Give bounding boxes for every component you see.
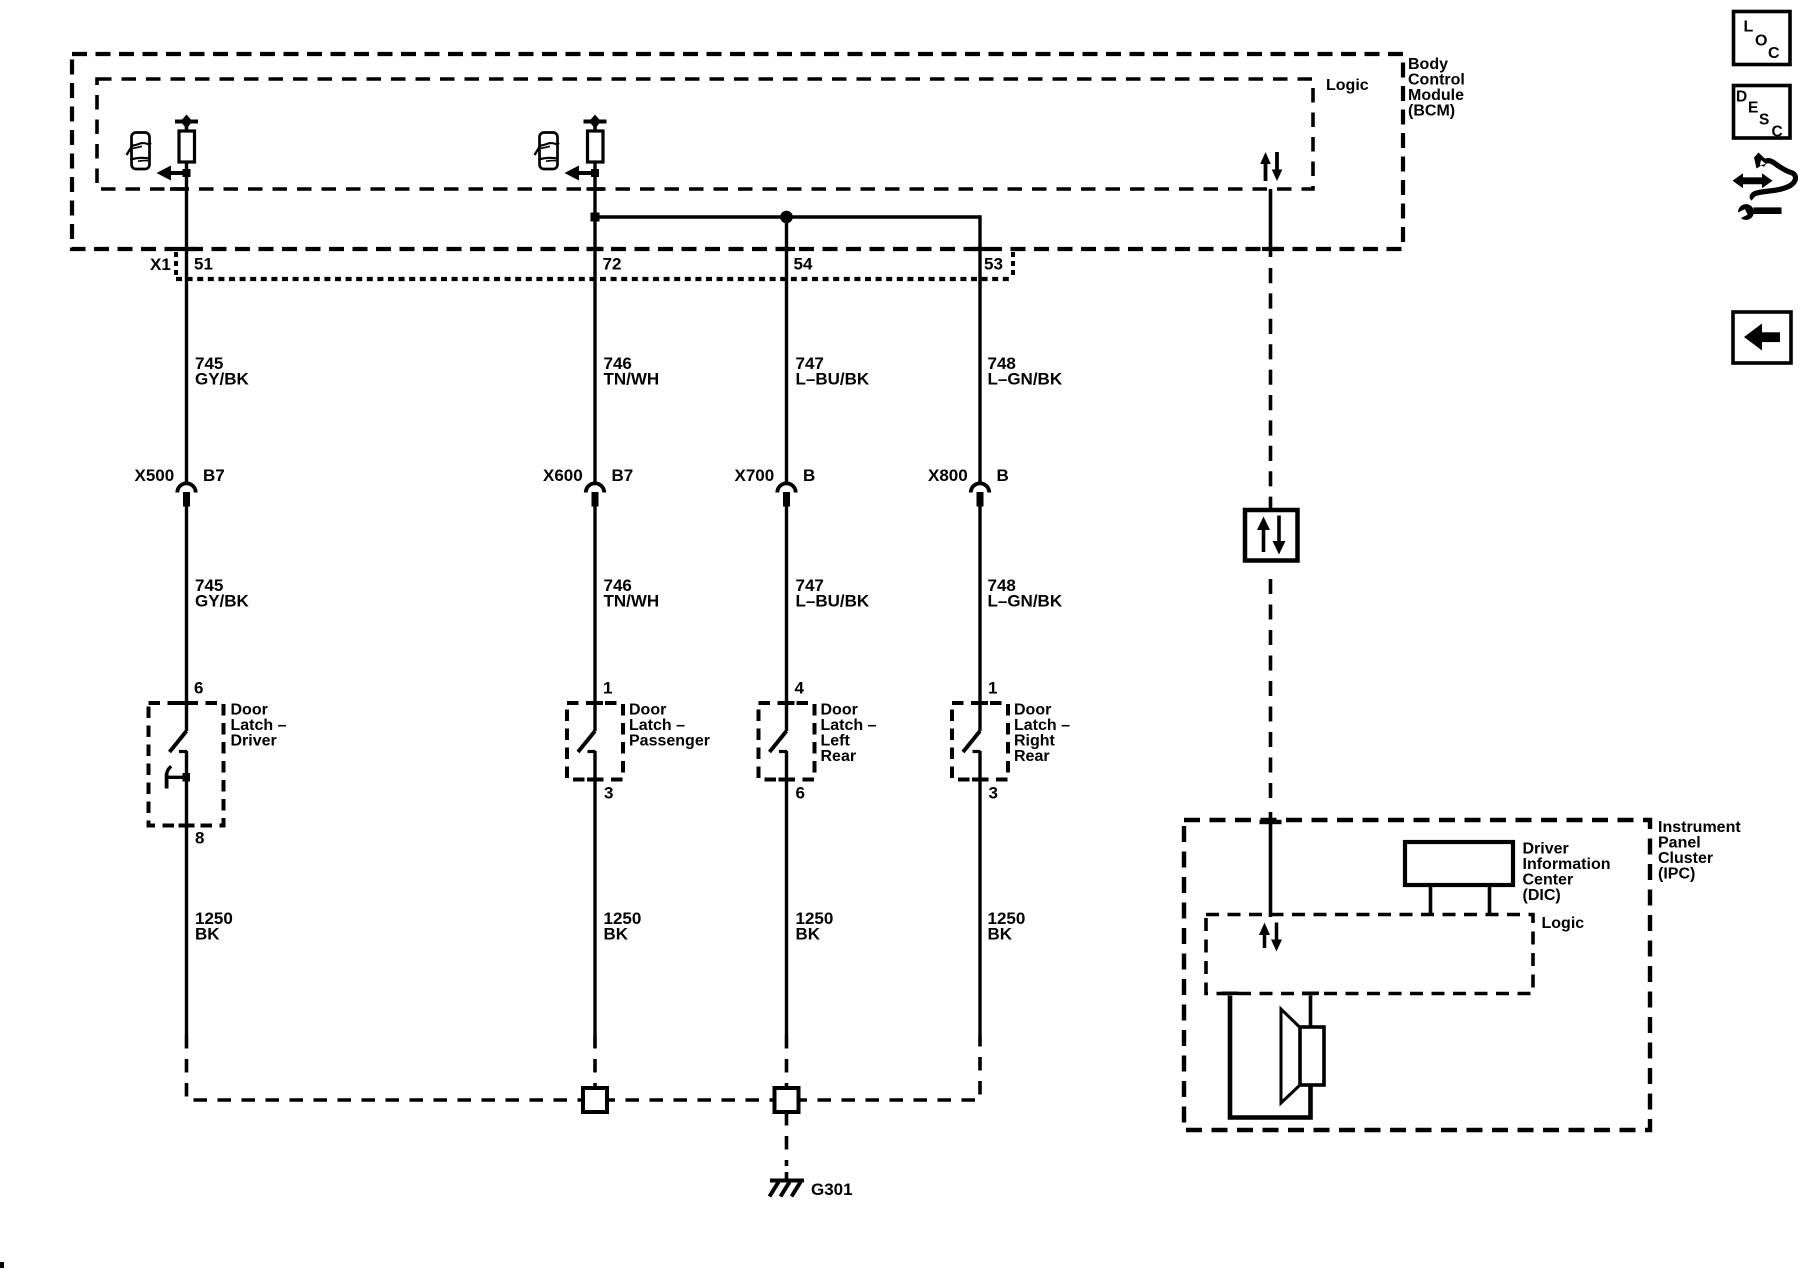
svg-text:Right: Right — [1014, 733, 1056, 750]
right rear latch label — [1014, 702, 1070, 766]
wire 1250 BK right rear solid — [978, 780, 981, 1036]
svg-text:Door: Door — [821, 702, 858, 719]
wire 746 upper segment — [593, 162, 596, 484]
pin 3 (right rear latch bottom) — [989, 784, 998, 803]
svg-text:72: 72 — [603, 255, 622, 274]
svg-text:Rear: Rear — [821, 748, 857, 765]
svg-text:54: 54 — [794, 255, 813, 274]
svg-text:Logic: Logic — [1326, 77, 1369, 94]
svg-text:6: 6 — [796, 784, 805, 803]
pin 6 (left rear latch bottom) — [796, 784, 805, 803]
wire 748 lower segment — [978, 507, 981, 732]
svg-text:8: 8 — [195, 829, 204, 848]
speaker wires — [1230, 996, 1311, 1118]
tick wire2 x logic box bottom — [587, 187, 604, 191]
svg-text:Left: Left — [821, 733, 851, 750]
tick speaker wire x IPC logic bottom — [1222, 992, 1239, 996]
serial data arrows in IPC logic — [1259, 923, 1282, 952]
pin 51 — [194, 255, 213, 274]
switch passenger — [578, 731, 596, 780]
back arrow icon box — [1733, 312, 1791, 363]
diagnostic icon (arrows + wrench) — [1733, 153, 1796, 221]
junction dot at wire3 branch — [780, 211, 793, 224]
arrow to car 1 — [157, 166, 191, 181]
svg-text:BK: BK — [988, 925, 1013, 944]
wire 747 label upper — [796, 354, 870, 389]
wire 745 label upper — [195, 354, 250, 389]
left rear latch label — [821, 702, 877, 766]
svg-text:GY/BK: GY/BK — [195, 592, 250, 611]
svg-text:BK: BK — [195, 925, 220, 944]
svg-text:1: 1 — [603, 679, 612, 698]
ground G301 — [770, 1181, 805, 1197]
wire 746 label mid — [604, 576, 660, 611]
X1 label — [150, 255, 171, 274]
serial data wire solid (below BCM logic) — [1269, 189, 1273, 257]
tick serial x BCM bottom — [1262, 247, 1279, 251]
battery feed symbol 1 (resistor with power tick) — [175, 115, 198, 163]
svg-text:X1: X1 — [150, 255, 171, 274]
pin 8 (driver latch bottom) — [195, 829, 204, 848]
svg-text:L–GN/BK: L–GN/BK — [988, 370, 1063, 389]
svg-text:S: S — [1759, 112, 1769, 129]
IPC outer dashed box — [1184, 820, 1650, 1130]
splice S1 — [583, 1088, 607, 1112]
tick wire3 x left rear box top — [779, 701, 795, 705]
dashed ground bus — [187, 1035, 981, 1100]
1250 BK label wire4 — [988, 909, 1026, 944]
tick wire1 x BCM bottom — [178, 247, 195, 251]
DIC module — [1405, 842, 1513, 916]
serial data arrows in BCM logic — [1260, 152, 1282, 181]
svg-text:Driver: Driver — [1523, 841, 1569, 858]
switch left rear — [770, 731, 788, 780]
serial data wire dashed lower — [1269, 579, 1273, 804]
svg-text:B7: B7 — [203, 466, 225, 485]
svg-text:1: 1 — [988, 679, 997, 698]
arrow to car 2 — [565, 166, 600, 181]
serial data wire dashed upper — [1269, 268, 1273, 510]
wire 747 upper segment — [785, 217, 788, 484]
svg-text:3: 3 — [604, 784, 613, 803]
wire 745 label mid — [195, 576, 250, 611]
svg-text:B: B — [997, 466, 1009, 485]
X1 connector band (dotted) — [176, 252, 1013, 279]
BCM Logic dashed box — [97, 79, 1313, 189]
svg-text:Door: Door — [629, 702, 666, 719]
serial data wire solid into IPC — [1269, 812, 1273, 917]
svg-text:53: 53 — [984, 255, 1003, 274]
svg-text:E: E — [1748, 100, 1758, 117]
wire 1250 BK driver solid — [185, 826, 188, 1036]
IPC logic dashed box — [1206, 915, 1533, 994]
splice S2 — [775, 1088, 799, 1112]
svg-text:Logic: Logic — [1542, 915, 1585, 932]
pin 72 — [603, 255, 622, 274]
door latch driver box — [149, 703, 224, 826]
svg-text:L: L — [1744, 19, 1754, 36]
passenger latch label — [629, 702, 710, 750]
tick wire4 x BCM bottom — [972, 247, 989, 251]
car icon 1 — [127, 133, 151, 170]
tick wire3 x left rear box bottom — [779, 778, 795, 782]
svg-text:4: 4 — [795, 679, 805, 698]
wire 747 label mid — [796, 576, 870, 611]
svg-text:Control: Control — [1408, 72, 1465, 89]
tick wire1 x driver box bottom — [179, 824, 195, 828]
connector X700 — [777, 483, 795, 506]
svg-text:C: C — [1772, 124, 1783, 141]
svg-text:Body: Body — [1408, 56, 1448, 73]
svg-text:3: 3 — [989, 784, 998, 803]
wire 1250 BK passenger solid — [593, 780, 596, 1036]
svg-text:B7: B7 — [612, 466, 634, 485]
svg-text:Module: Module — [1408, 87, 1464, 104]
dashed wire to ground — [785, 1112, 789, 1180]
svg-text:G301: G301 — [811, 1180, 853, 1199]
page mark bottom-left — [0, 1262, 4, 1268]
wire 748 upper segment — [978, 215, 981, 484]
switch right rear — [963, 731, 981, 780]
svg-text:Latch –: Latch – — [629, 717, 685, 734]
svg-text:TN/WH: TN/WH — [604, 370, 660, 389]
DIC label — [1523, 841, 1611, 905]
svg-text:X700: X700 — [735, 466, 775, 485]
svg-text:Panel: Panel — [1658, 835, 1701, 852]
connector X500 — [177, 483, 195, 506]
tick wire2 x passenger box top — [587, 701, 603, 705]
svg-text:Latch –: Latch – — [1014, 717, 1070, 734]
svg-text:TN/WH: TN/WH — [604, 592, 660, 611]
junction square at wire2 branch — [591, 213, 600, 222]
branch wire from wire2 to wires 3 and 4 — [595, 215, 980, 219]
svg-text:X500: X500 — [135, 466, 175, 485]
svg-text:BK: BK — [796, 925, 821, 944]
door latch passenger box — [567, 703, 623, 780]
wire 1250 BK left rear solid — [785, 780, 788, 1036]
G301 label — [811, 1180, 853, 1199]
BCM label — [1408, 56, 1465, 120]
wire 745 upper segment — [185, 162, 188, 484]
svg-text:Rear: Rear — [1014, 748, 1050, 765]
tick wire1 x logic box bottom — [170, 187, 187, 191]
tick wire3 x BCM bottom — [778, 247, 795, 251]
svg-text:BK: BK — [604, 925, 629, 944]
pin 3 (passenger latch bottom) — [604, 784, 613, 803]
pin 6 (driver latch top) — [194, 679, 203, 698]
svg-text:51: 51 — [194, 255, 213, 274]
1250 BK label wire1 — [195, 909, 233, 944]
wire 748 label upper — [988, 354, 1063, 389]
Logic label (BCM) — [1326, 77, 1369, 94]
tick wire4 x right rear box top — [972, 701, 988, 705]
BCM outer dashed box — [72, 54, 1403, 249]
svg-text:Door: Door — [1014, 702, 1051, 719]
Logic label (IPC) — [1542, 915, 1585, 932]
svg-text:L–GN/BK: L–GN/BK — [988, 592, 1063, 611]
wire 746 label upper — [604, 354, 660, 389]
switch driver — [170, 731, 188, 826]
wire 746 lower segment — [593, 507, 596, 732]
tick serial x IPC top — [1260, 820, 1282, 824]
svg-text:L–BU/BK: L–BU/BK — [796, 592, 870, 611]
svg-text:B: B — [803, 466, 815, 485]
pin 53 — [984, 255, 1003, 274]
wire 748 label mid — [988, 576, 1063, 611]
1250 BK label wire3 — [796, 909, 834, 944]
door latch right rear box — [952, 703, 1008, 780]
pin 4 (left rear latch top) — [795, 679, 805, 698]
serial data gateway box — [1245, 510, 1298, 561]
IPC label — [1658, 819, 1741, 883]
svg-text:D: D — [1736, 89, 1747, 106]
svg-text:Center: Center — [1523, 872, 1574, 889]
svg-text:O: O — [1755, 33, 1767, 50]
wire 745 lower segment — [185, 507, 188, 732]
driver latch label — [231, 702, 287, 750]
svg-text:Latch –: Latch – — [821, 717, 877, 734]
svg-text:(DIC): (DIC) — [1523, 887, 1561, 904]
svg-text:L–BU/BK: L–BU/BK — [796, 370, 870, 389]
svg-text:(IPC): (IPC) — [1658, 866, 1695, 883]
latch actuator (driver) — [165, 766, 190, 788]
svg-text:X800: X800 — [928, 466, 968, 485]
tick wire2 x BCM bottom — [587, 247, 604, 251]
svg-text:(BCM): (BCM) — [1408, 103, 1455, 120]
battery feed symbol 2 — [584, 115, 607, 163]
svg-text:Instrument: Instrument — [1658, 819, 1741, 836]
tick wire2 x passenger box bottom — [587, 778, 603, 782]
tick wire1 x driver box top — [179, 701, 195, 705]
pin 1 (right rear latch top) — [988, 679, 997, 698]
pin 1 (passenger latch top) — [603, 679, 612, 698]
svg-text:6: 6 — [194, 679, 203, 698]
tick wire4 x right rear box bottom — [972, 778, 988, 782]
svg-text:C: C — [1768, 45, 1780, 62]
svg-text:Information: Information — [1523, 856, 1611, 873]
svg-text:X600: X600 — [543, 466, 583, 485]
car icon 2 — [535, 133, 559, 170]
speaker — [1281, 1009, 1324, 1103]
svg-text:Door: Door — [231, 702, 268, 719]
wire 747 lower segment — [785, 507, 788, 732]
door latch left rear box — [759, 703, 815, 780]
1250 BK label wire2 — [604, 909, 642, 944]
svg-text:Driver: Driver — [231, 733, 277, 750]
DESC icon box — [1734, 86, 1791, 141]
svg-text:Passenger: Passenger — [629, 733, 710, 750]
LOC icon box — [1734, 12, 1791, 65]
pin 54 — [794, 255, 813, 274]
svg-text:GY/BK: GY/BK — [195, 370, 250, 389]
connector X800 — [971, 483, 989, 506]
connector X600 — [586, 483, 604, 506]
svg-text:Cluster: Cluster — [1658, 850, 1713, 867]
svg-text:Latch –: Latch – — [231, 717, 287, 734]
